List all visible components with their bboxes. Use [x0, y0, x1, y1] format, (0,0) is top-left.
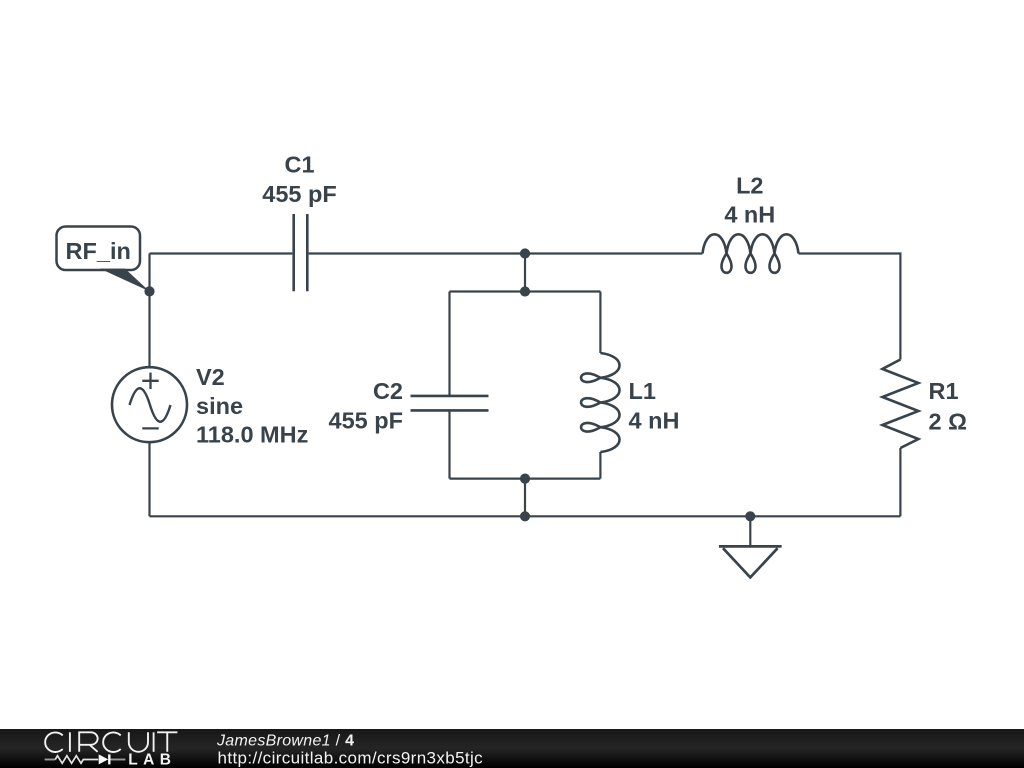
logo letter U — [129, 732, 148, 751]
wire left vertical above V2 — [148, 254, 150, 368]
node RF_in (flag attachment) — [144, 286, 154, 296]
wire left vertical below V2 — [148, 442, 150, 516]
logo letter I — [69, 732, 71, 752]
svg-text:L2: L2 — [736, 173, 763, 199]
svg-text:V2: V2 — [196, 364, 225, 390]
capacitor C1 plates — [294, 214, 308, 291]
inductor L1 coil — [581, 353, 619, 452]
logo letter I (2) — [153, 732, 155, 752]
wire stub tank bottom to bus — [524, 479, 526, 517]
wire top-left segment (RF_in corner to C1) — [150, 252, 293, 254]
svg-text:RF_in: RF_in — [66, 238, 131, 264]
footer url text — [218, 749, 484, 768]
net flag RF_in box — [57, 227, 141, 271]
svg-text:455 pF: 455 pF — [262, 181, 336, 207]
svg-text:4 nH: 4 nH — [724, 202, 775, 228]
svg-text:R1: R1 — [929, 378, 959, 404]
svg-text:C2: C2 — [373, 378, 403, 404]
logo resistor zigzag glyph — [45, 756, 99, 764]
capacitor C2 plates — [411, 396, 489, 411]
logo text LAB — [128, 751, 176, 768]
wire tank box top — [450, 290, 601, 292]
node bottom bus below box — [520, 511, 530, 521]
wire tank box left above C2 — [448, 292, 450, 396]
node box bottom (C2||L1 bottom) — [520, 474, 530, 484]
resistor R1 label — [929, 378, 967, 435]
voltage source V2 minus sign — [142, 427, 158, 429]
wire tank box left below C2 — [448, 410, 450, 478]
svg-text:C1: C1 — [284, 152, 314, 178]
resistor R1 zigzag — [882, 360, 918, 449]
capacitor C2 label — [329, 378, 403, 434]
net flag RF_in pointer — [100, 269, 150, 292]
svg-text:sine: sine — [196, 393, 243, 419]
voltage source V2 label — [196, 364, 308, 448]
wire tank box right above L1 — [599, 292, 601, 354]
logo letter C — [45, 732, 63, 752]
ground symbol — [719, 516, 782, 577]
node top / C1-L2 junction — [520, 248, 530, 258]
voltage source V2 circle — [112, 367, 187, 442]
inductor L1 label — [629, 378, 680, 434]
logo letter T — [157, 732, 177, 752]
capacitor C1 label — [262, 152, 336, 208]
logo letter C (2) — [103, 732, 121, 752]
footer black bar — [0, 729, 1024, 768]
node box top (C2||L1 top) — [520, 286, 530, 296]
node ground junction — [745, 511, 755, 521]
logo letter R — [79, 732, 97, 752]
voltage source V2 sine wave — [130, 388, 171, 422]
logo diode glyph — [99, 754, 126, 764]
wire stub top node to tank top — [524, 254, 526, 292]
net flag RF_in text — [66, 238, 131, 264]
wire R1 bottom to bus — [899, 448, 901, 516]
svg-text:455 pF: 455 pF — [329, 408, 403, 434]
voltage source V2 plus sign — [142, 373, 158, 389]
svg-text:118.0 MHz: 118.0 MHz — [196, 422, 308, 448]
footer username text: JamesBrowne1 / 4 — [216, 732, 354, 749]
wire L2 to top-right corner down to R1 — [799, 254, 901, 360]
svg-text:2 Ω: 2 Ω — [929, 409, 967, 435]
svg-text:L1: L1 — [629, 378, 656, 404]
wire C1 right plate to L2 — [309, 252, 703, 254]
inductor L2 coil — [703, 234, 799, 273]
wire tank box bottom — [450, 478, 601, 480]
svg-text:4 nH: 4 nH — [629, 408, 680, 434]
wire bottom bus — [150, 515, 901, 517]
wire tank box right below L1 — [599, 452, 601, 479]
inductor L2 label — [724, 173, 775, 228]
